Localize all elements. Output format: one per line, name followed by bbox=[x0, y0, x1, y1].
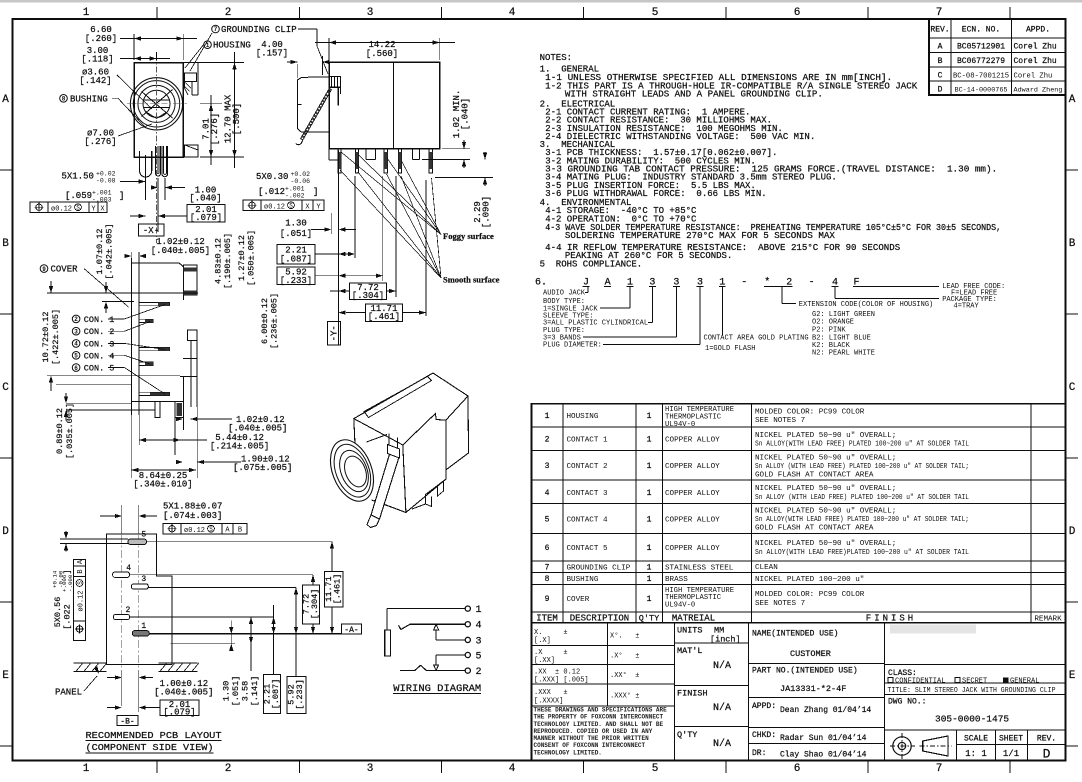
svg-text:NICKEL PLATED 50~90 u" OVERALL: NICKEL PLATED 50~90 u" OVERALL; bbox=[755, 507, 896, 515]
isometric top slot bbox=[364, 377, 432, 418]
svg-text:CONSENT OF FOXCONN INTERCONNEC: CONSENT OF FOXCONN INTERCONNECT bbox=[534, 742, 646, 749]
isometric barrel bbox=[322, 434, 381, 508]
dimension 8.64 bbox=[131, 469, 196, 471]
front view bushing cross bbox=[142, 92, 173, 119]
svg-text:Sn ALLOY (WITH LEAD FREE) PLAT: Sn ALLOY (WITH LEAD FREE) PLATED 100~200… bbox=[755, 494, 969, 502]
isometric bottom tabs bbox=[426, 497, 432, 507]
svg-text:TECHNOLOGY LIMITED. AND SHALL: TECHNOLOGY LIMITED. AND SHALL NOT BE bbox=[534, 721, 664, 728]
side view body bbox=[329, 62, 440, 148]
svg-text:-: - bbox=[741, 277, 747, 288]
svg-text:CUSTOMER: CUSTOMER bbox=[790, 649, 831, 659]
svg-text:S: S bbox=[209, 526, 213, 533]
svg-text:[.075±.005]: [.075±.005] bbox=[233, 463, 292, 473]
GDT frame front view bbox=[30, 202, 107, 213]
svg-text:4: 4 bbox=[509, 763, 516, 775]
svg-text:1: 1 bbox=[647, 544, 652, 553]
pcb panel hatching right bbox=[158, 662, 197, 664]
svg-text:CON. 4: CON. 4 bbox=[84, 351, 115, 361]
svg-text:1: 1 bbox=[647, 412, 652, 421]
svg-text:]: ] bbox=[119, 191, 124, 201]
side view bottom profile bbox=[328, 149, 330, 160]
svg-text:UL94V-0: UL94V-0 bbox=[665, 421, 695, 429]
svg-text:CONTACT AREA GOLD PLATING: CONTACT AREA GOLD PLATING bbox=[704, 334, 809, 342]
svg-text:3: 3 bbox=[367, 763, 374, 775]
svg-text:5: 5 bbox=[545, 515, 550, 524]
housing label bbox=[204, 41, 212, 49]
dimension 5.44 bbox=[139, 439, 180, 441]
svg-text:[.XXX] [.005]: [.XXX] [.005] bbox=[534, 677, 589, 685]
svg-text:4: 4 bbox=[545, 489, 550, 498]
svg-text:[.087]: [.087] bbox=[280, 255, 312, 265]
svg-text:[.022: [.022 bbox=[63, 604, 73, 630]
foggy surface leaders bbox=[341, 152, 441, 235]
svg-text:[inch]: [inch] bbox=[710, 635, 741, 645]
svg-text:.X° ±: .X° ± bbox=[610, 652, 639, 661]
svg-text:[.304]: [.304] bbox=[310, 589, 320, 620]
wiring tip contact bar bbox=[385, 630, 391, 656]
svg-text:6: 6 bbox=[794, 7, 801, 19]
wiring pin3 wire with arrow bbox=[436, 639, 465, 641]
svg-text:1: 1 bbox=[83, 7, 90, 19]
svg-text:-Y-: -Y- bbox=[330, 325, 340, 341]
con leader lines bbox=[108, 318, 125, 320]
svg-text:[.XX]: [.XX] bbox=[534, 657, 555, 665]
svg-text:[.040]: [.040] bbox=[189, 194, 221, 204]
svg-text:3: 3 bbox=[141, 575, 146, 584]
svg-text:Clay Shao 01/04’14: Clay Shao 01/04’14 bbox=[780, 751, 867, 760]
svg-text:Adward Zheng: Adward Zheng bbox=[1014, 87, 1063, 95]
pcb dim 2.01 boxed bbox=[160, 700, 199, 715]
dimension 7.72 boxed bbox=[349, 283, 386, 299]
zone ticks top bbox=[156, 7, 158, 19]
svg-text:[.040]: [.040] bbox=[461, 98, 471, 130]
svg-text:HOUSING: HOUSING bbox=[567, 413, 599, 421]
svg-text:Corel Zhu: Corel Zhu bbox=[1014, 57, 1057, 66]
line y301.5 bbox=[102, 301, 134, 303]
svg-text:[.118]: [.118] bbox=[81, 55, 113, 65]
front view body bbox=[134, 63, 183, 158]
svg-text:1.27±0.12: 1.27±0.12 bbox=[237, 235, 247, 281]
svg-text:2: 2 bbox=[476, 667, 482, 678]
pcb datum A line bbox=[149, 633, 341, 635]
isometric top face bbox=[354, 373, 468, 445]
svg-text:.XXX° ±: .XXX° ± bbox=[610, 692, 639, 701]
svg-text:[.276]: [.276] bbox=[84, 137, 116, 147]
svg-text:1: 1 bbox=[647, 564, 652, 573]
datum A box bbox=[341, 624, 361, 634]
svg-text:S: S bbox=[77, 581, 84, 585]
svg-text:6.00±0.12: 6.00±0.12 bbox=[260, 298, 270, 344]
svg-text:.XX° ±: .XX° ± bbox=[610, 671, 639, 680]
svg-text:2: 2 bbox=[126, 606, 131, 615]
svg-text:4.83±0.12: 4.83±0.12 bbox=[214, 238, 224, 284]
svg-text:SCALE: SCALE bbox=[964, 735, 988, 744]
svg-text:DR:: DR: bbox=[752, 749, 766, 758]
svg-text:1: 1 bbox=[476, 605, 482, 616]
svg-text:5X0.30: 5X0.30 bbox=[256, 172, 288, 182]
svg-text:ITEM: ITEM bbox=[536, 613, 558, 623]
svg-text:X. ±: X. ± bbox=[534, 629, 568, 637]
svg-text:+0.02: +0.02 bbox=[96, 171, 116, 178]
svg-text:[.276]: [.276] bbox=[210, 113, 220, 145]
svg-text:Foggy surface: Foggy surface bbox=[443, 231, 494, 241]
svg-text:[.040±.005]: [.040±.005] bbox=[151, 246, 210, 256]
pcb centerlines vertical bbox=[121, 505, 123, 688]
long extension line y294 bbox=[47, 292, 198, 294]
svg-text:[.059: [.059 bbox=[65, 191, 92, 201]
svg-text:STAINLESS STEEL: STAINLESS STEEL bbox=[665, 565, 734, 573]
svg-text:7: 7 bbox=[214, 26, 218, 33]
svg-text:[.500]: [.500] bbox=[232, 103, 242, 135]
svg-text:[.051]: [.051] bbox=[231, 676, 241, 707]
svg-text:-.002: -.002 bbox=[285, 193, 305, 200]
side view panel clip bbox=[297, 77, 328, 132]
front view grounding clip top bbox=[185, 73, 197, 82]
svg-text:[.340±.010]: [.340±.010] bbox=[133, 480, 192, 490]
svg-text:NICKEL PLATED 50~90 u" OVERALL: NICKEL PLATED 50~90 u" OVERALL; bbox=[755, 540, 896, 548]
smooth surface leaders bbox=[340, 170, 441, 278]
svg-text:N/A: N/A bbox=[713, 702, 731, 714]
svg-text:2: 2 bbox=[225, 763, 232, 775]
pin extension lines side view bbox=[354, 176, 356, 258]
svg-text:PART NO.(INTENDED USE): PART NO.(INTENDED USE) bbox=[752, 667, 858, 676]
dimension 2.01 boxed bbox=[187, 205, 225, 223]
svg-text:[.087]: [.087] bbox=[271, 679, 281, 710]
datum Y extension line bbox=[338, 150, 340, 345]
front view centerlines bbox=[127, 103, 187, 105]
con view bottom pins bbox=[175, 402, 184, 418]
svg-text:PANEL: PANEL bbox=[55, 688, 82, 698]
svg-text:ø0.12: ø0.12 bbox=[77, 590, 85, 611]
svg-text:CONTACT 3: CONTACT 3 bbox=[567, 490, 608, 498]
svg-text:5: 5 bbox=[652, 763, 659, 775]
svg-text:[.141]: [.141] bbox=[250, 676, 260, 707]
svg-text:Radar Sun 01/04’14: Radar Sun 01/04’14 bbox=[780, 734, 867, 743]
svg-text:B: B bbox=[2, 238, 9, 250]
svg-text:D: D bbox=[1069, 526, 1076, 538]
svg-text:S: S bbox=[289, 203, 293, 210]
title block bbox=[532, 623, 1066, 761]
svg-text:[.XXXX]: [.XXXX] bbox=[534, 698, 563, 706]
svg-text:(COMPONENT SIDE VIEW): (COMPONENT SIDE VIEW) bbox=[86, 742, 214, 753]
GDT frame pcb bbox=[163, 524, 247, 535]
svg-text:.XX ± 0.12: .XX ± 0.12 bbox=[534, 669, 580, 677]
wiring pin2 wire bbox=[427, 670, 466, 672]
svg-text:D: D bbox=[938, 86, 943, 95]
svg-text:MAT'L: MAT'L bbox=[677, 646, 703, 656]
svg-text:]: ] bbox=[313, 187, 318, 197]
svg-text:E: E bbox=[2, 670, 9, 682]
wiring pins bbox=[465, 606, 470, 611]
svg-text:UL94V-0: UL94V-0 bbox=[665, 601, 695, 609]
pcb dim 2.21 vertical bbox=[273, 605, 275, 675]
svg-text:REV.: REV. bbox=[930, 26, 949, 35]
svg-text:5X0.56: 5X0.56 bbox=[53, 597, 63, 628]
dimension 2.21 boxed bbox=[277, 245, 315, 264]
pcb 1.88 arrows top bbox=[121, 505, 123, 534]
svg-text:10.72±0.12: 10.72±0.12 bbox=[41, 311, 51, 362]
svg-text:[.051]: [.051] bbox=[280, 229, 312, 239]
svg-text:B: B bbox=[1069, 238, 1076, 250]
svg-text:5: 5 bbox=[141, 531, 146, 540]
svg-text:BC05712901: BC05712901 bbox=[957, 43, 1005, 52]
svg-text:305-0000-1475: 305-0000-1475 bbox=[935, 714, 1009, 725]
svg-text:1/1: 1/1 bbox=[1003, 749, 1019, 759]
svg-text:JA13331-*2-4F: JA13331-*2-4F bbox=[780, 684, 846, 694]
svg-text:O2: ORANGE: O2: ORANGE bbox=[812, 319, 854, 327]
svg-text:CONTACT 1: CONTACT 1 bbox=[567, 437, 608, 445]
con view lower extension lines bbox=[130, 415, 132, 478]
svg-text:5: 5 bbox=[652, 7, 659, 19]
pcb left extension bbox=[60, 538, 128, 540]
dimension 6.60 bbox=[133, 34, 135, 60]
svg-text:[.079]: [.079] bbox=[190, 213, 222, 223]
svg-text:B: B bbox=[77, 569, 85, 573]
svg-text:SECRET: SECRET bbox=[962, 678, 987, 686]
svg-text:C: C bbox=[2, 382, 9, 394]
svg-text:[.X]: [.X] bbox=[534, 637, 551, 645]
svg-text:1: 1 bbox=[545, 412, 550, 421]
side view pins bbox=[338, 149, 341, 173]
svg-text:MANNER WITHOUT THE PRIOR WRITT: MANNER WITHOUT THE PRIOR WRITTEN bbox=[534, 735, 650, 742]
svg-text:-0.06: -0.06 bbox=[291, 178, 311, 185]
svg-text:-: - bbox=[809, 277, 815, 288]
svg-text:NOTES:: NOTES: bbox=[540, 53, 572, 63]
svg-text:+.001: +.001 bbox=[285, 186, 305, 193]
dimension 3.00 bbox=[156, 52, 158, 60]
svg-text:Sn ALLOY(WITH LEAD FREE) PLATE: Sn ALLOY(WITH LEAD FREE) PLATED 100~200 … bbox=[755, 516, 969, 524]
svg-text:EXTENSION CODE(COLOR OF HOUSIN: EXTENSION CODE(COLOR OF HOUSING) bbox=[799, 301, 933, 309]
svg-text:AUDIO JACK: AUDIO JACK bbox=[543, 290, 586, 298]
svg-text:B: B bbox=[238, 527, 242, 535]
svg-text:5 ROHS COMPLIANCE.: 5 ROHS COMPLIANCE. bbox=[540, 259, 643, 269]
svg-text:[.190±.005]: [.190±.005] bbox=[223, 233, 233, 289]
svg-text:D: D bbox=[2, 526, 9, 538]
svg-text:2: 2 bbox=[74, 316, 78, 323]
svg-text:N/A: N/A bbox=[713, 660, 731, 672]
datum X box bbox=[138, 224, 164, 236]
svg-text:3: 3 bbox=[545, 462, 550, 471]
svg-text:COPPER ALLOY: COPPER ALLOY bbox=[665, 516, 720, 524]
svg-text:E: E bbox=[1069, 670, 1076, 682]
con view barrel bbox=[183, 265, 197, 295]
svg-text:[.090]: [.090] bbox=[482, 196, 492, 228]
front view pin dims bbox=[145, 155, 147, 200]
svg-text:[.142]: [.142] bbox=[79, 76, 111, 86]
svg-text:[.461]: [.461] bbox=[333, 574, 343, 605]
svg-text:A: A bbox=[2, 94, 9, 106]
svg-text:BC06772279: BC06772279 bbox=[957, 57, 1005, 66]
svg-text:Corel Zhu: Corel Zhu bbox=[1014, 43, 1057, 52]
svg-text:N/A: N/A bbox=[713, 738, 731, 750]
svg-text:7: 7 bbox=[936, 763, 943, 775]
cone symbol bbox=[923, 736, 948, 756]
dimension 5.92 boxed bbox=[277, 267, 315, 285]
svg-text:1.07±0.12: 1.07±0.12 bbox=[95, 229, 105, 275]
svg-text:1: 1 bbox=[141, 622, 146, 631]
svg-text:MATREIAL: MATREIAL bbox=[672, 613, 715, 623]
pcb dim 2.21 boxed rotated bbox=[264, 675, 281, 714]
svg-text:]: ] bbox=[63, 569, 73, 574]
svg-text:+0.02: +0.02 bbox=[291, 171, 311, 178]
wiring pin4 wire and switch bbox=[410, 623, 465, 625]
svg-text:1: 1 bbox=[647, 515, 652, 524]
svg-text:SEE NOTES 7: SEE NOTES 7 bbox=[755, 600, 805, 608]
datum B box bbox=[117, 715, 138, 725]
pcb dim 5.92 vertical bbox=[295, 588, 297, 677]
pcb pads bbox=[128, 539, 147, 544]
svg-text:3: 3 bbox=[367, 7, 374, 19]
svg-text:ECN. NO.: ECN. NO. bbox=[962, 26, 1000, 35]
isometric right face edges bbox=[406, 420, 446, 513]
svg-text:DESCRIPTION: DESCRIPTION bbox=[570, 613, 629, 623]
svg-text:4=TRAY: 4=TRAY bbox=[954, 303, 980, 311]
svg-text:NICKEL PLATED 50~90 u" OVERALL: NICKEL PLATED 50~90 u" OVERALL; bbox=[755, 454, 896, 462]
svg-text:GOLD FLASH AT CONTACT AREA: GOLD FLASH AT CONTACT AREA bbox=[755, 472, 874, 480]
svg-text:Sn ALLOY (WITH LEAD FREE) PLAT: Sn ALLOY (WITH LEAD FREE) PLATED 100~200… bbox=[755, 463, 969, 471]
svg-text:UNITS: UNITS bbox=[677, 626, 703, 636]
svg-text:4: 4 bbox=[126, 564, 131, 573]
isometric lower right block bbox=[412, 479, 446, 509]
svg-text:THE PROPERTY OF FOXCONN INTERC: THE PROPERTY OF FOXCONN INTERCONNECT bbox=[534, 714, 664, 721]
svg-text:[.236±.005]: [.236±.005] bbox=[270, 293, 280, 349]
svg-text:-.000: -.000 bbox=[67, 574, 74, 592]
svg-text:9: 9 bbox=[545, 595, 550, 604]
svg-text:HOUSING: HOUSING bbox=[213, 41, 251, 51]
svg-text:2: 2 bbox=[225, 7, 232, 19]
side view clip spring bbox=[303, 89, 332, 140]
dimension 11.71 boxed bbox=[366, 304, 403, 322]
svg-text:CON. 1: CON. 1 bbox=[84, 315, 115, 325]
grey top strip bbox=[0, 0, 1082, 2]
svg-text:Corel Zhu: Corel Zhu bbox=[1014, 72, 1053, 80]
svg-text:4: 4 bbox=[74, 341, 78, 348]
svg-text:GOLD FLASH AT CONTACT AREA: GOLD FLASH AT CONTACT AREA bbox=[755, 525, 874, 533]
svg-text:[.214±.005]: [.214±.005] bbox=[210, 442, 269, 452]
svg-text:APPD.: APPD. bbox=[1026, 26, 1050, 35]
svg-text:X°. ±: X°. ± bbox=[610, 632, 639, 641]
svg-text:1.30: 1.30 bbox=[285, 219, 307, 229]
svg-text:[.233]: [.233] bbox=[280, 276, 312, 286]
svg-text:SEE NOTES 7: SEE NOTES 7 bbox=[755, 417, 805, 425]
bushing label bbox=[60, 95, 68, 103]
svg-text:NICKEL PLATED 100~200 u": NICKEL PLATED 100~200 u" bbox=[755, 576, 864, 584]
svg-text:1: 1 bbox=[647, 575, 652, 584]
svg-text:Q'TY: Q'TY bbox=[639, 613, 659, 623]
svg-text:1: 1 bbox=[647, 462, 652, 471]
faint logo area bbox=[890, 625, 976, 634]
svg-text:5X1.88±0.07: 5X1.88±0.07 bbox=[163, 502, 222, 512]
svg-text:[.461]: [.461] bbox=[368, 312, 400, 322]
svg-text:REPRODUCED. COPIED OR USED IN: REPRODUCED. COPIED OR USED IN ANY bbox=[534, 728, 653, 735]
svg-text:4: 4 bbox=[476, 621, 482, 632]
svg-text:Q'TY: Q'TY bbox=[677, 730, 697, 740]
svg-text:BC-14-0000765: BC-14-0000765 bbox=[954, 87, 1007, 95]
svg-text:[.050±.005]: [.050±.005] bbox=[247, 230, 257, 286]
GDT frame side view bbox=[243, 200, 324, 211]
svg-text:8: 8 bbox=[62, 96, 66, 103]
svg-text:1: 1 bbox=[647, 489, 652, 498]
svg-text:WITH STRAIGHT LEADS AND A PANE: WITH STRAIGHT LEADS AND A PANEL GROUNDIN… bbox=[565, 90, 823, 100]
wiring pin1 wire bbox=[387, 608, 465, 610]
svg-text:7: 7 bbox=[545, 564, 550, 573]
svg-text:1: 1 bbox=[647, 436, 652, 445]
svg-text:CONTACT 5: CONTACT 5 bbox=[567, 545, 608, 553]
svg-text:N2: PEARL WHITE: N2: PEARL WHITE bbox=[812, 350, 875, 358]
svg-text:TECHNOLOGY LIMITED.: TECHNOLOGY LIMITED. bbox=[534, 749, 602, 756]
svg-text:COPPER ALLOY: COPPER ALLOY bbox=[665, 463, 720, 471]
svg-text:FINISH: FINISH bbox=[866, 613, 916, 623]
third angle projection symbol bbox=[893, 737, 911, 755]
dimension 14.22 bbox=[328, 38, 330, 60]
svg-text:3: 3 bbox=[476, 636, 482, 647]
svg-text:5: 5 bbox=[74, 353, 78, 360]
svg-text:[.422±.005]: [.422±.005] bbox=[51, 309, 61, 365]
svg-text:.X ±: .X ± bbox=[534, 649, 568, 657]
zone ticks bottom bbox=[156, 761, 158, 774]
svg-text:Sn ALLOY(WITH LEAD FREE) PLATE: Sn ALLOY(WITH LEAD FREE) PLATED 100~200 … bbox=[755, 441, 969, 449]
svg-text:[.560]: [.560] bbox=[366, 49, 398, 59]
pcb dim 11.71 boxed rotated bbox=[324, 571, 343, 607]
svg-text:BUSHING: BUSHING bbox=[567, 576, 599, 584]
dimension 1.02 lower bbox=[191, 418, 232, 420]
svg-text:8: 8 bbox=[545, 575, 550, 584]
svg-text:6: 6 bbox=[74, 365, 78, 372]
svg-text:COPPER ALLOY: COPPER ALLOY bbox=[665, 545, 720, 553]
side view clip tab legs bbox=[337, 88, 339, 106]
pcb dim extension lines bbox=[147, 541, 333, 543]
svg-text:[.042±.005]: [.042±.005] bbox=[105, 223, 115, 279]
front view pins bbox=[140, 151, 152, 177]
con view right steps bbox=[182, 295, 184, 300]
svg-text:ø0.12: ø0.12 bbox=[264, 204, 285, 212]
isometric clip top detail bbox=[388, 445, 400, 459]
dimension 1.90 bbox=[197, 461, 241, 463]
svg-text:[.040±.005]: [.040±.005] bbox=[154, 688, 213, 698]
svg-text:6: 6 bbox=[794, 763, 801, 775]
svg-text:1: 1 bbox=[83, 763, 90, 775]
svg-text:NICKEL PLATED 50~90 u" OVERALL: NICKEL PLATED 50~90 u" OVERALL; bbox=[755, 432, 896, 440]
front view grounding clip bottom bbox=[185, 145, 199, 157]
isometric front face bbox=[354, 419, 356, 451]
wiring pin5 wire with arrow bbox=[436, 654, 465, 656]
svg-text:5X1.50: 5X1.50 bbox=[62, 172, 94, 182]
svg-text:MOLDED COLOR: PC99 COLOR: MOLDED COLOR: PC99 COLOR bbox=[755, 591, 865, 599]
svg-text:[.233]: [.233] bbox=[295, 679, 305, 710]
svg-text:ø0.12: ø0.12 bbox=[51, 206, 72, 214]
svg-text:6: 6 bbox=[545, 544, 550, 553]
svg-text:CON. 5: CON. 5 bbox=[84, 364, 115, 374]
svg-text:2: 2 bbox=[545, 436, 550, 445]
svg-text:BRASS: BRASS bbox=[665, 576, 688, 584]
svg-text:[.260]: [.260] bbox=[85, 34, 117, 44]
svg-text:1.30: 1.30 bbox=[222, 681, 232, 701]
con view body strip bbox=[130, 258, 132, 415]
svg-text:[.012: [.012 bbox=[258, 187, 285, 197]
svg-text:5: 5 bbox=[476, 652, 482, 663]
svg-text:PLUG DIAMETER:: PLUG DIAMETER: bbox=[543, 342, 602, 350]
svg-text:BUSHING: BUSHING bbox=[70, 94, 108, 104]
svg-text:APPD:: APPD: bbox=[752, 702, 776, 711]
contact bars bbox=[139, 302, 170, 305]
svg-text:NAME(INTENDED USE): NAME(INTENDED USE) bbox=[752, 630, 838, 639]
svg-text:0.89±0.12: 0.89±0.12 bbox=[55, 408, 65, 454]
revision table bbox=[929, 19, 1066, 95]
GDT frame pcb left rotated bbox=[74, 559, 86, 640]
svg-text:NICKEL PLATED 50~90 u" OVERALL: NICKEL PLATED 50~90 u" OVERALL; bbox=[755, 485, 896, 493]
svg-text:COPPER ALLOY: COPPER ALLOY bbox=[665, 490, 720, 498]
svg-text:B: B bbox=[938, 57, 943, 66]
